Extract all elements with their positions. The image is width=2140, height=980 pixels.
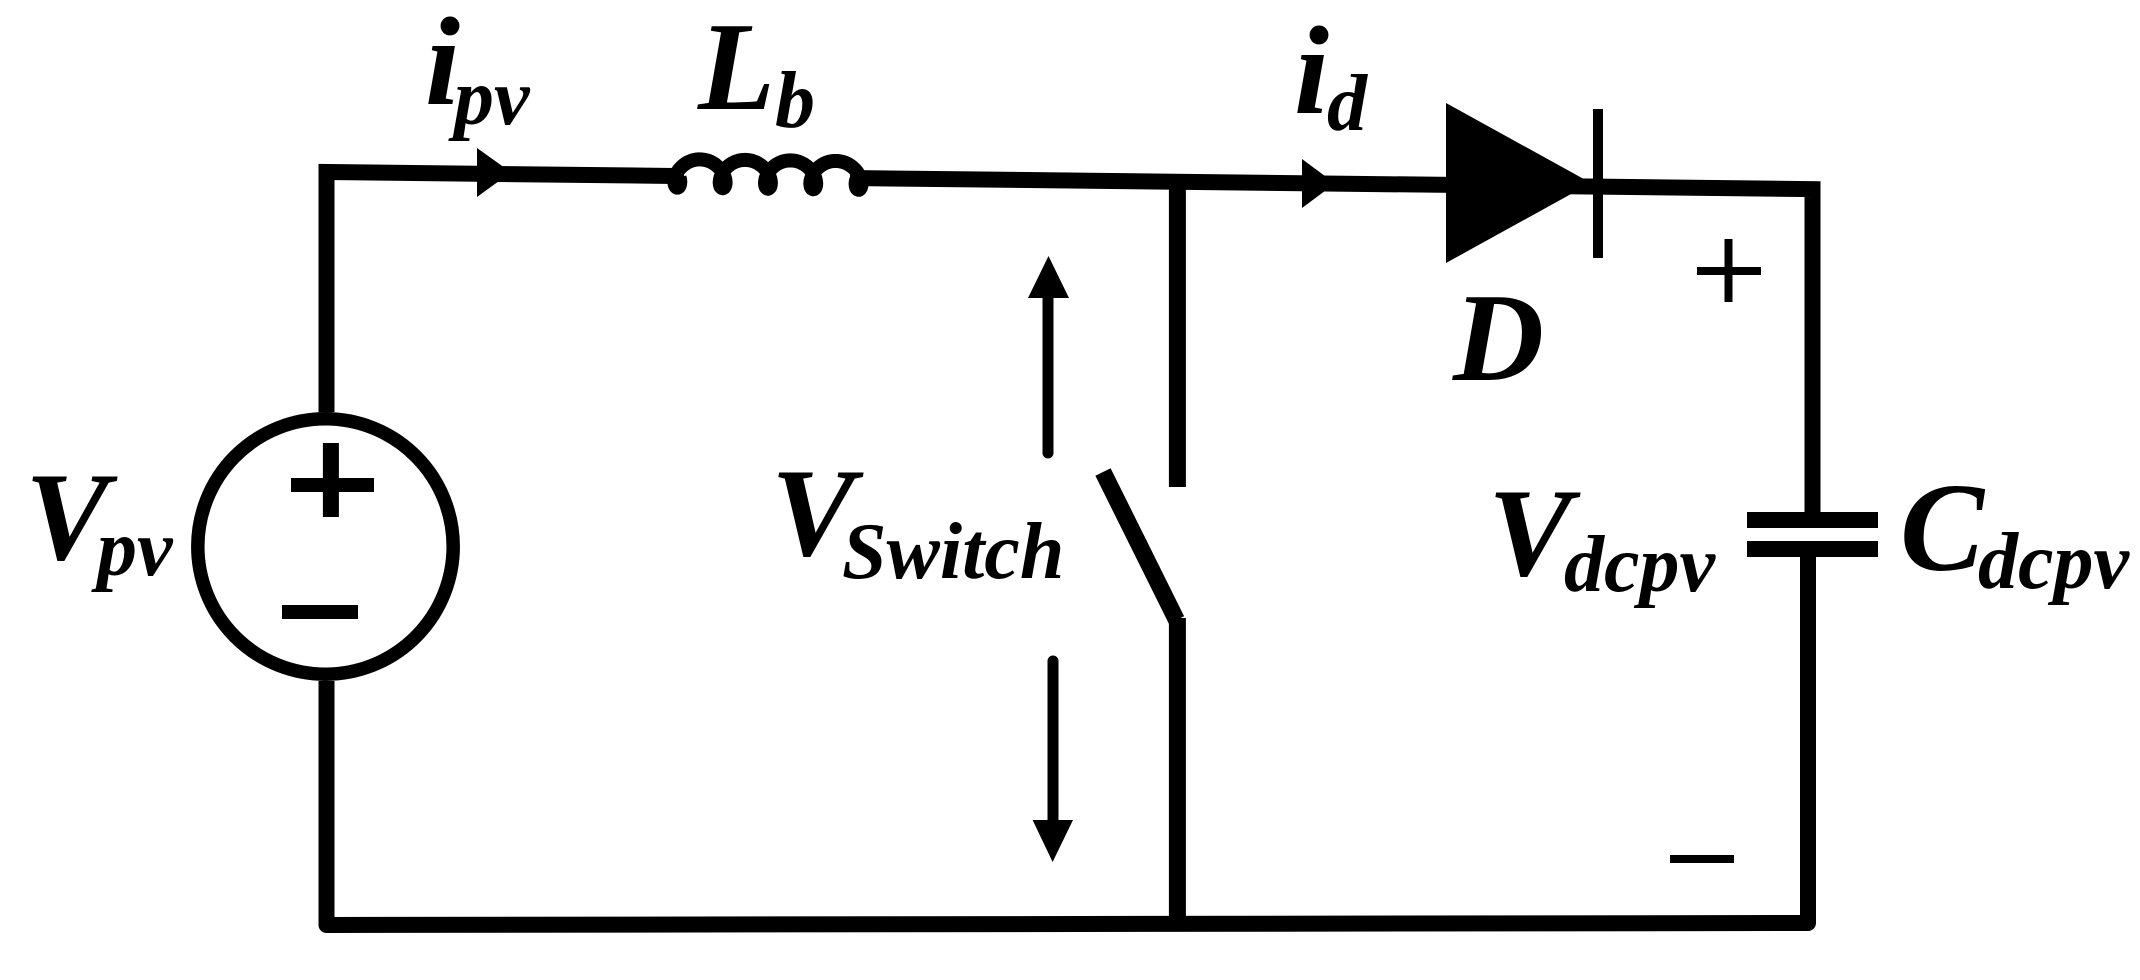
svg-text:i: i: [1294, 2, 1329, 141]
label i_d: [1294, 2, 1368, 148]
label C_dcpv: [1900, 459, 2131, 606]
V_Switch down arrow shaft: [1048, 661, 1059, 820]
V_Switch up arrow head: [1028, 256, 1069, 298]
capacitor C_dcpv bottom plate: [1747, 541, 1878, 557]
minus polarity mark inside source V_pv: [282, 605, 358, 619]
svg-text:pv: pv: [448, 54, 531, 142]
plus polarity mark at capacitor: [1697, 239, 1761, 302]
minus polarity mark at capacitor: [1670, 855, 1734, 863]
svg-text:b: b: [775, 57, 815, 145]
label V_pv: [25, 448, 174, 593]
svg-text:C: C: [1900, 459, 1986, 598]
svg-text:dcpv: dcpv: [1978, 518, 2131, 606]
label i_pv: [425, 0, 531, 142]
svg-text:Switch: Switch: [842, 508, 1064, 596]
bottom return wire from Vpv negative terminal to capacitor bottom: [327, 553, 1809, 925]
label L_b: [697, 0, 815, 145]
svg-text:d: d: [1327, 60, 1368, 148]
inductor L_b: [674, 159, 861, 189]
diode D triangle: [1446, 103, 1591, 263]
svg-text:L: L: [697, 0, 775, 137]
plus polarity mark inside source V_pv: [291, 443, 374, 517]
switch lower lead wire down to bottom wire: [1169, 618, 1186, 928]
svg-text:D: D: [1452, 269, 1544, 408]
capacitor C_dcpv top plate: [1747, 512, 1878, 528]
switch upper lead wire at node from top wire: [1169, 180, 1186, 487]
label V_dcpv: [1488, 464, 1717, 609]
current arrow head for i_pv on top wire: [477, 148, 511, 197]
diode D cathode bar: [1593, 109, 1603, 258]
current arrow head for i_d before diode: [1302, 159, 1335, 208]
label V_Switch: [771, 444, 1064, 596]
voltage source V_pv circle: [198, 419, 453, 674]
svg-text:dcpv: dcpv: [1564, 521, 1717, 609]
svg-text:pv: pv: [91, 505, 174, 593]
switch blade (open switch): [1103, 472, 1177, 620]
V_Switch up arrow shaft: [1043, 298, 1054, 453]
label D: [1452, 269, 1544, 408]
wire from inductor Lb through switch node to diode and down right side to capacitor: [850, 178, 1813, 516]
wire from Vpv positive terminal up and right to inductor Lb: [327, 172, 685, 412]
V_Switch down arrow head: [1033, 820, 1073, 862]
